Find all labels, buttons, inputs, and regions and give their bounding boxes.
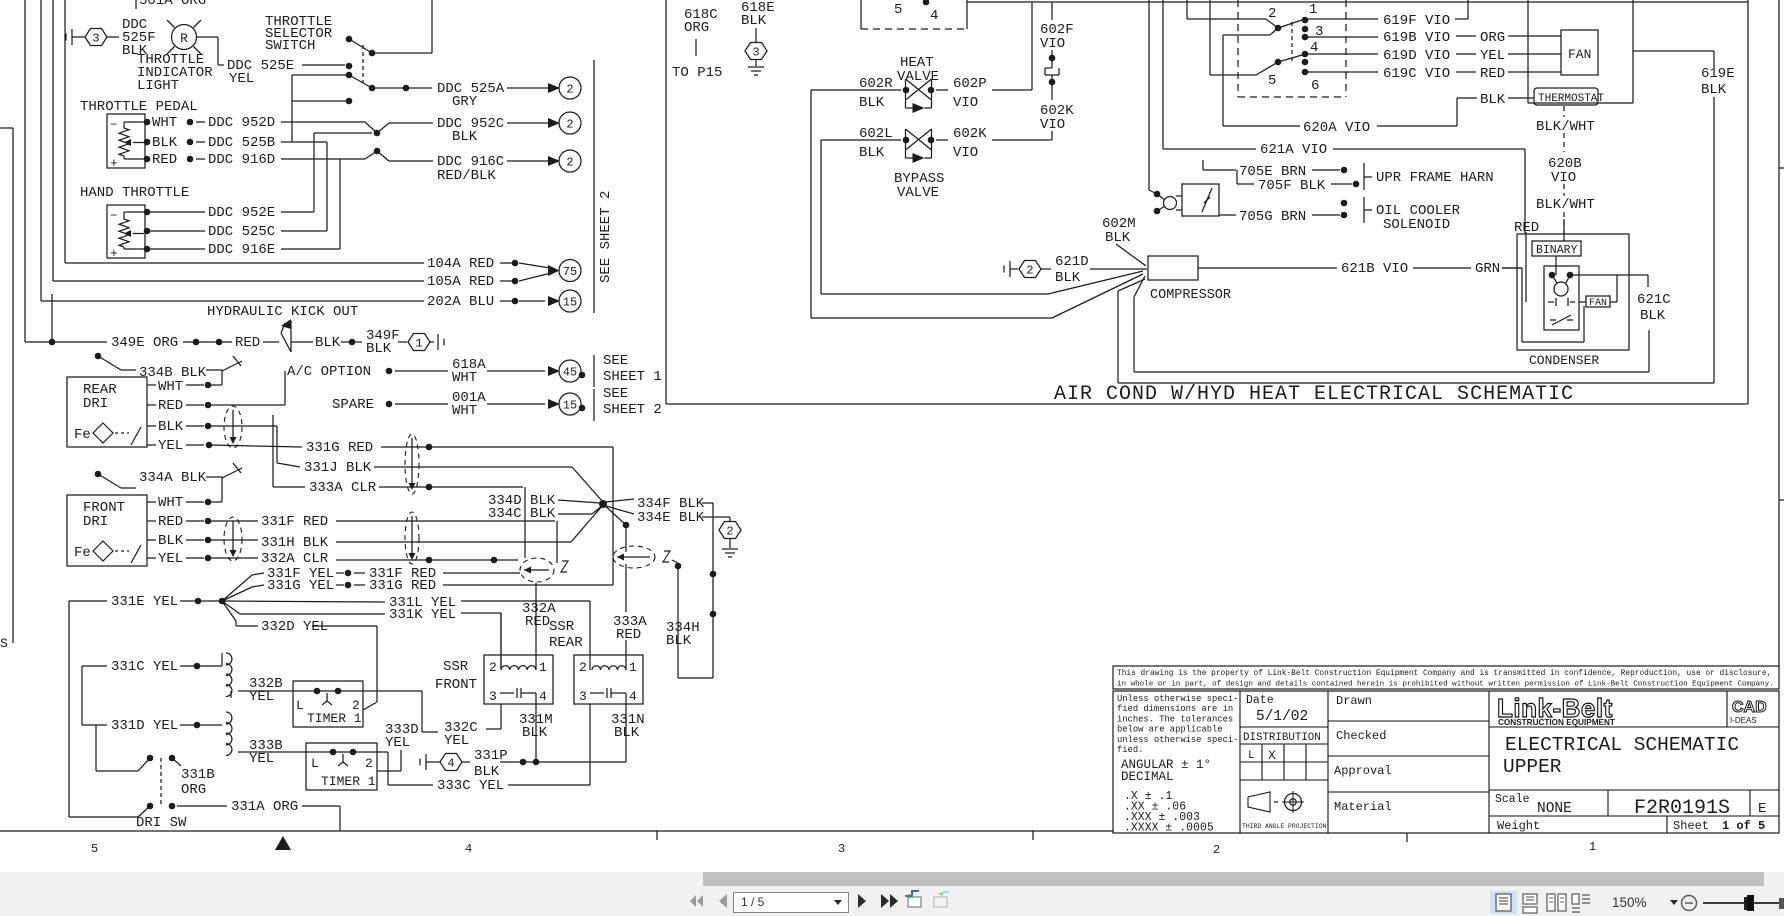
svg-text:TIMER 1: TIMER 1 [321,774,376,789]
svg-text:2: 2 [489,660,497,675]
svg-text:UPR FRAME HARN: UPR FRAME HARN [1376,170,1494,186]
svg-text:RED: RED [152,152,177,168]
svg-text:BLK: BLK [741,13,767,29]
svg-text:Approval: Approval [1334,764,1392,778]
svg-text:VIO: VIO [1040,36,1065,52]
svg-text:705G BRN: 705G BRN [1239,209,1306,225]
svg-text:L: L [296,698,304,713]
svg-text:BLK: BLK [158,419,184,435]
svg-text:349E ORG: 349E ORG [111,335,178,351]
svg-text:RED: RED [158,398,183,414]
svg-text:TIMER 1: TIMER 1 [307,711,362,726]
svg-text:This drawing is the property o: This drawing is the property of Link-Bel… [1117,669,1771,678]
svg-text:5: 5 [894,2,902,18]
svg-text:RED: RED [1480,66,1505,82]
svg-text:621C: 621C [1637,292,1671,308]
svg-text:WHT: WHT [452,403,477,419]
svg-text:−: − [110,209,117,223]
svg-text:A/C OPTION: A/C OPTION [287,364,371,380]
svg-text:WHT: WHT [152,115,177,131]
svg-text:334A BLK: 334A BLK [139,470,207,486]
svg-text:6: 6 [1311,78,1319,94]
svg-text:331G RED: 331G RED [369,578,436,594]
svg-text:BLK: BLK [1640,308,1666,324]
svg-text:DECIMAL: DECIMAL [1121,770,1174,784]
svg-text:SSR: SSR [443,659,469,675]
svg-text:UPPER: UPPER [1503,756,1562,778]
svg-text:DDC 916E: DDC 916E [208,242,275,258]
svg-text:fied dimensions are in: fied dimensions are in [1117,704,1233,714]
svg-text:331B: 331B [181,767,215,783]
svg-text:YEL: YEL [158,551,183,567]
svg-text:331G RED: 331G RED [306,440,373,456]
svg-text:COMPRESSOR: COMPRESSOR [1150,288,1231,303]
svg-text:4: 4 [465,842,472,856]
svg-text:3: 3 [92,32,99,46]
svg-text:fied.: fied. [1117,745,1143,755]
svg-text:in whole or in part, of design: in whole or in part, of design and detai… [1117,681,1774,689]
svg-text:BLK: BLK [1055,270,1081,286]
svg-text:VIO: VIO [1551,170,1576,186]
svg-text:DRI: DRI [83,514,108,530]
svg-text:5/1/02: 5/1/02 [1256,709,1308,725]
svg-text:SSR: SSR [549,619,575,635]
svg-text:BLK: BLK [158,533,184,549]
svg-text:SHEET 2: SHEET 2 [603,402,662,418]
svg-text:below are applicable: below are applicable [1117,725,1223,735]
svg-text:GRY: GRY [452,94,478,110]
svg-text:DDC 525B: DDC 525B [208,135,275,151]
svg-text:WHT: WHT [158,495,183,511]
svg-text:333A CLR: 333A CLR [309,480,377,496]
svg-text:331E YEL: 331E YEL [111,594,178,610]
svg-text:621B VIO: 621B VIO [1341,261,1408,277]
svg-text:SOLENOID: SOLENOID [1383,217,1450,233]
svg-text:DDC 952E: DDC 952E [208,205,275,221]
svg-text:1: 1 [629,660,637,675]
svg-text:BLK: BLK [1701,82,1727,98]
svg-text:BLK: BLK [666,633,692,649]
svg-text:FRONT: FRONT [435,677,477,693]
svg-text:SWITCH: SWITCH [265,38,315,54]
svg-text:1: 1 [415,337,422,351]
svg-text:331C YEL: 331C YEL [111,659,178,675]
svg-text:BLK: BLK [614,725,640,741]
svg-text:L: L [311,756,319,771]
svg-text:BLK: BLK [152,135,178,151]
svg-text:104A RED: 104A RED [427,256,494,272]
svg-text:Fe: Fe [74,427,91,443]
svg-text:DRI: DRI [83,396,108,412]
svg-text:TO P15: TO P15 [672,65,722,81]
svg-text:I-DEAS: I-DEAS [1730,716,1757,725]
svg-text:WHT: WHT [158,379,183,395]
svg-text:3: 3 [579,689,587,704]
svg-text:Sheet: Sheet [1673,819,1709,833]
svg-text:LIGHT: LIGHT [137,78,179,94]
svg-text:75: 75 [563,265,577,279]
svg-text:333C YEL: 333C YEL [437,778,504,794]
svg-text:45: 45 [563,366,577,380]
svg-text:GRN: GRN [1475,261,1500,277]
svg-text:CONSTRUCTION EQUIPMENT: CONSTRUCTION EQUIPMENT [1498,718,1615,727]
svg-text:SEE: SEE [603,386,628,402]
svg-text:331A ORG: 331A ORG [231,799,298,815]
svg-text:602L: 602L [859,126,893,142]
svg-text:RED/BLK: RED/BLK [437,168,496,184]
svg-text:+: + [110,246,118,261]
svg-text:BLK: BLK [522,725,548,741]
svg-text:602K: 602K [953,126,987,142]
svg-text:Drawn: Drawn [1336,694,1372,708]
svg-text:YEL: YEL [385,735,410,751]
svg-text:Date: Date [1246,694,1274,707]
svg-text:AIR COND W/HYD HEAT ELECTRICAL: AIR COND W/HYD HEAT ELECTRICAL SCHEMATIC [1054,383,1574,406]
svg-text:2: 2 [726,525,733,539]
svg-text:BLK/WHT: BLK/WHT [1536,197,1595,213]
svg-text:2: 2 [365,756,373,771]
svg-text:5: 5 [1268,73,1276,89]
svg-text:619B VIO: 619B VIO [1383,30,1450,46]
svg-text:RED: RED [158,514,183,530]
svg-text:3: 3 [489,689,497,704]
svg-text:334C BLK: 334C BLK [488,506,556,522]
svg-text:332D YEL: 332D YEL [261,619,328,635]
svg-text:BLK: BLK [315,335,341,351]
svg-text:331F RED: 331F RED [261,514,328,530]
svg-text:705F BLK: 705F BLK [1258,178,1326,194]
svg-text:BLK: BLK [859,145,885,161]
svg-text:331K YEL: 331K YEL [389,607,456,623]
svg-text:DDC 916D: DDC 916D [208,152,275,168]
svg-text:Weight: Weight [1497,819,1540,833]
svg-text:VIO: VIO [1040,117,1065,133]
svg-text:SHEET 1: SHEET 1 [603,369,662,385]
svg-text:HYDRAULIC KICK OUT: HYDRAULIC KICK OUT [207,304,358,320]
svg-text:331G YEL: 331G YEL [267,578,334,594]
svg-text:REAR: REAR [549,635,583,651]
svg-text:VIO: VIO [953,95,978,111]
svg-text:SPARE: SPARE [332,397,374,413]
svg-text:620A VIO: 620A VIO [1303,120,1370,136]
svg-text:5: 5 [91,842,98,856]
svg-text:+: + [110,156,118,171]
svg-text:619D VIO: 619D VIO [1383,48,1450,64]
svg-text:.XXXX ± .0005: .XXXX ± .0005 [1124,822,1214,835]
svg-text:1 of 5: 1 of 5 [1722,819,1765,833]
svg-text:YEL: YEL [1480,48,1505,64]
svg-text:RED: RED [525,614,550,630]
svg-text:331H BLK: 331H BLK [261,535,329,551]
svg-text:Unless otherwise speci-: Unless otherwise speci- [1117,694,1238,704]
svg-text:Checked: Checked [1336,729,1386,743]
svg-text:−: − [110,118,117,132]
svg-text:331D YEL: 331D YEL [111,718,178,734]
svg-text:4: 4 [447,757,454,771]
svg-text:621D: 621D [1055,254,1089,270]
svg-text:CAD: CAD [1732,699,1767,716]
svg-text:RED: RED [616,627,641,643]
svg-text:Material: Material [1334,800,1392,814]
svg-text:332A CLR: 332A CLR [261,551,329,567]
svg-text:DRI SW: DRI SW [136,815,187,831]
svg-text:619C VIO: 619C VIO [1383,66,1450,82]
svg-text:NONE: NONE [1537,801,1572,817]
svg-text:Scale: Scale [1495,793,1530,806]
svg-text:1: 1 [1589,840,1596,854]
svg-text:YEL: YEL [229,71,254,87]
svg-text:SEE SHEET 2: SEE SHEET 2 [598,191,614,283]
svg-text:L: L [1248,750,1255,762]
svg-text:DDC 952D: DDC 952D [208,115,275,131]
svg-text:SEE: SEE [603,353,628,369]
svg-text:619F VIO: 619F VIO [1383,13,1450,29]
svg-text:621A VIO: 621A VIO [1260,142,1327,158]
svg-text:2: 2 [1213,843,1220,857]
svg-text:BINARY: BINARY [1536,244,1578,257]
svg-text:BLK: BLK [859,95,885,111]
svg-text:E: E [1758,801,1766,817]
svg-text:ORG: ORG [181,782,206,798]
svg-text:105A RED: 105A RED [427,274,494,290]
svg-text:ORG: ORG [1480,30,1505,46]
svg-text:501A ORG: 501A ORG [139,0,206,9]
svg-text:FAN: FAN [1568,47,1591,62]
svg-text:R: R [180,31,188,46]
svg-text:BLK: BLK [452,129,478,145]
svg-text:202A BLU: 202A BLU [427,294,494,310]
svg-text:FAN: FAN [1589,298,1607,309]
svg-text:2: 2 [566,83,573,97]
svg-text:BLK: BLK [1480,92,1506,108]
svg-text:602R: 602R [859,76,893,92]
svg-text:YEL: YEL [444,733,469,749]
svg-text:4: 4 [629,689,637,704]
svg-text:3: 3 [838,842,845,856]
svg-text:602P: 602P [953,76,987,92]
svg-text:ORG: ORG [684,20,709,36]
svg-text:3: 3 [752,46,759,60]
svg-text:4: 4 [930,8,938,24]
svg-text:BLK: BLK [474,764,500,780]
svg-text:VALVE: VALVE [897,185,939,201]
svg-text:BLK: BLK [1105,230,1131,246]
svg-text:CONDENSER: CONDENSER [1529,353,1599,368]
svg-text:unless otherwise speci-: unless otherwise speci- [1117,735,1238,745]
svg-text:S: S [0,636,8,651]
svg-text:2: 2 [579,660,587,675]
svg-text:YEL: YEL [249,751,274,767]
svg-text:DDC 525C: DDC 525C [208,224,275,240]
svg-text:334E BLK: 334E BLK [637,510,705,526]
svg-text:THIRD ANGLE PROJECTION: THIRD ANGLE PROJECTION [1242,823,1327,830]
svg-text:15: 15 [563,296,577,310]
svg-text:4: 4 [539,689,547,704]
svg-text:VIO: VIO [953,145,978,161]
svg-text:HAND THROTTLE: HAND THROTTLE [80,185,189,201]
svg-text:2: 2 [566,118,573,132]
svg-text:2: 2 [1268,6,1276,22]
svg-text:X: X [1268,748,1276,763]
svg-text:ELECTRICAL SCHEMATIC: ELECTRICAL SCHEMATIC [1505,734,1739,756]
svg-text:YEL: YEL [158,438,183,454]
svg-text:RED: RED [235,335,260,351]
svg-text:331J BLK: 331J BLK [304,460,372,476]
svg-text:DISTRIBUTION: DISTRIBUTION [1243,732,1321,744]
svg-text:THROTTLE PEDAL: THROTTLE PEDAL [80,99,198,115]
svg-text:BLK/WHT: BLK/WHT [1536,119,1595,135]
svg-text:15: 15 [563,399,577,413]
svg-text:WHT: WHT [452,370,477,386]
svg-text:inches. The tolerances: inches. The tolerances [1117,714,1233,724]
svg-text:1: 1 [539,660,547,675]
svg-text:1: 1 [1309,2,1317,18]
svg-text:BLK: BLK [366,341,392,357]
svg-text:VALVE: VALVE [897,69,939,85]
svg-text:Fe: Fe [74,545,91,561]
svg-text:619E: 619E [1701,66,1735,82]
svg-text:2: 2 [1026,264,1033,278]
svg-text:2: 2 [566,156,573,170]
